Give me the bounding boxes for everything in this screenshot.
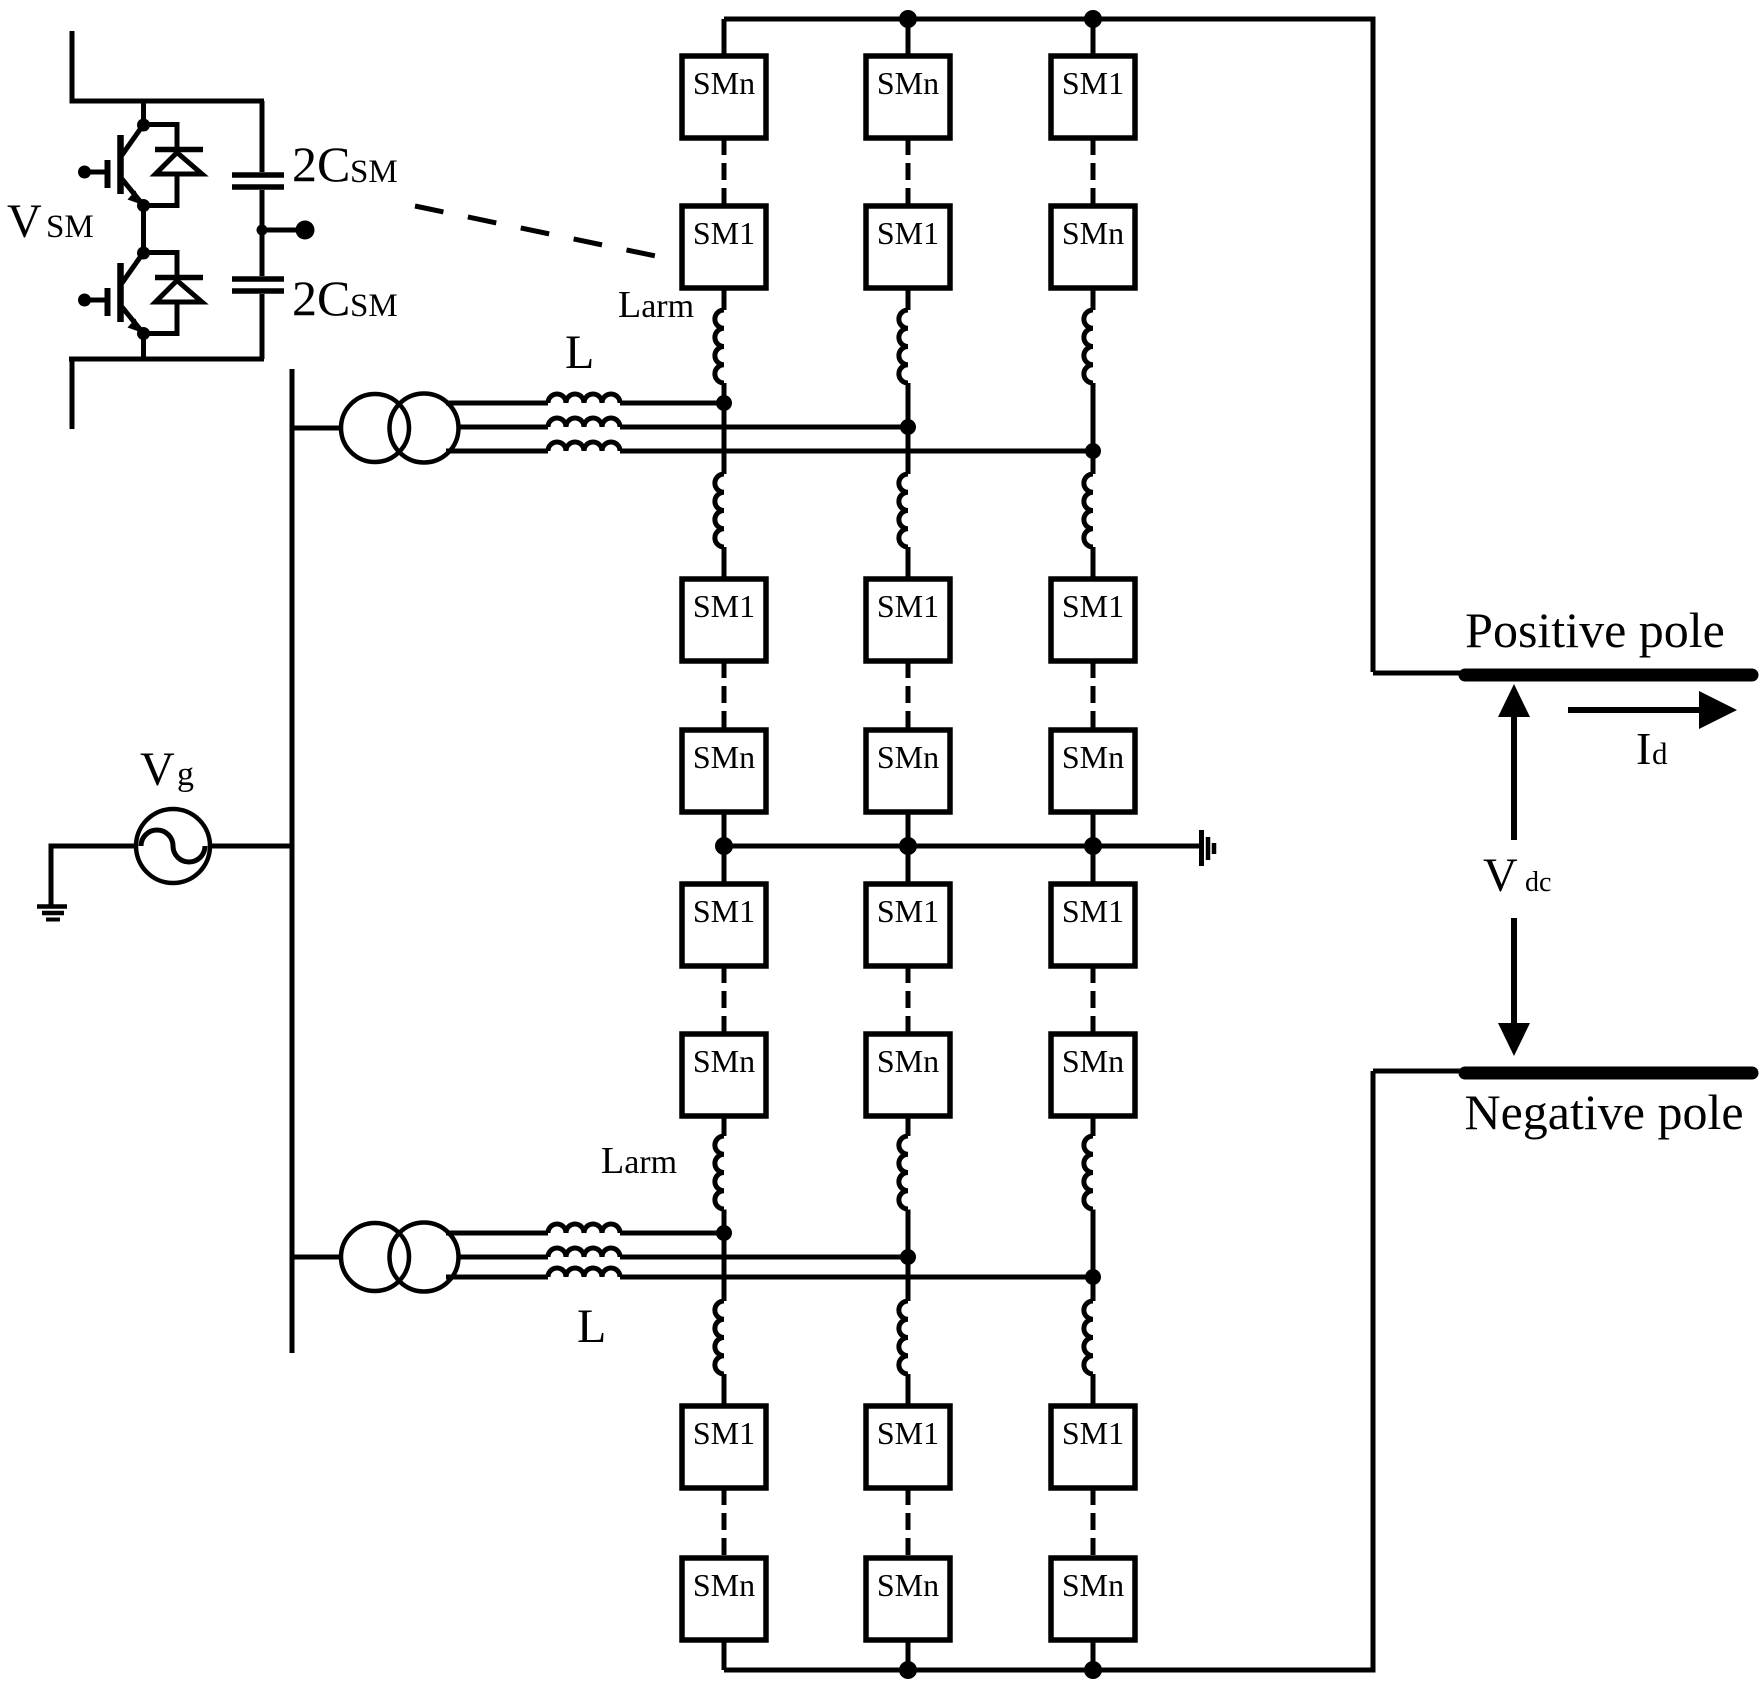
submodule box SMn (lower arm-, phase C) bbox=[1051, 1558, 1135, 1640]
wire neutral bus to lower arm+ phase B bbox=[906, 846, 911, 884]
wire Vg to ground bbox=[51, 846, 136, 906]
svg-text:SM1: SM1 bbox=[693, 588, 755, 624]
inductor Larm (upper arm+, phase C) bbox=[1084, 310, 1093, 383]
wire Larm to phase node A (upper) bbox=[722, 383, 727, 403]
wire Larm to phase node B (lower) bbox=[906, 1210, 911, 1258]
wire lower arm+ to Larm phase B bbox=[906, 1116, 911, 1136]
submodule box SM1 (upper arm+, phase B) bbox=[866, 206, 950, 288]
wire lower arm+ to Larm phase A bbox=[722, 1116, 727, 1136]
submodule box SMn (upper arm-, phase A) bbox=[682, 730, 766, 812]
inductor Larm (upper arm-, phase C) bbox=[1084, 474, 1093, 547]
wire top DC bus to positive pole bbox=[724, 19, 1373, 672]
arrow Vdc (pole-to-pole voltage) bbox=[1498, 684, 1530, 1056]
wire T1 phase C feeder bbox=[446, 449, 1093, 454]
label Vdc bbox=[1483, 849, 1551, 902]
svg-text:SM1: SM1 bbox=[877, 588, 939, 624]
wire arm+ dashed link phase B bbox=[906, 138, 911, 206]
wire lower arm+ dashed link phase C bbox=[1091, 966, 1096, 1034]
wire arm- to neutral bus phase A bbox=[722, 812, 727, 846]
inductor L (T2 phase A) bbox=[548, 1224, 620, 1233]
wire lower arm- dashed link phase C bbox=[1091, 1488, 1096, 1558]
wire lower arm+ dashed link phase B bbox=[906, 966, 911, 1034]
submodule box SM1 (lower arm+, phase A) bbox=[682, 884, 766, 966]
junction phase node A (upper converter) bbox=[716, 395, 732, 411]
svg-text:SMn: SMn bbox=[877, 739, 939, 775]
inductor Larm (lower arm+, phase B) bbox=[899, 1136, 908, 1209]
junction top bus phase B bbox=[899, 10, 917, 28]
junction neutral bus phase B bbox=[899, 837, 917, 855]
inductor Larm (upper arm-, phase B) bbox=[899, 474, 908, 547]
submodule box SM1 (lower arm+, phase C) bbox=[1051, 884, 1135, 966]
junction phase node B (upper converter) bbox=[900, 419, 916, 435]
svg-text:SMn: SMn bbox=[693, 739, 755, 775]
wire neutral bus to lower arm+ phase C bbox=[1091, 846, 1096, 884]
svg-text:SM1: SM1 bbox=[693, 1415, 755, 1451]
diode D1 (antiparallel, upper) bbox=[144, 125, 204, 206]
svg-text:Positive pole: Positive pole bbox=[1465, 602, 1725, 658]
wire T1 phase A feeder bbox=[446, 401, 724, 406]
wire SM detail: bottom rail / negative terminal lead bbox=[69, 359, 264, 429]
ground (neutral point) bbox=[1202, 830, 1215, 866]
submodule box SM1 (lower arm-, phase B) bbox=[866, 1406, 950, 1488]
svg-text:SM1: SM1 bbox=[877, 215, 939, 251]
capacitor C1 (2Csm upper) bbox=[232, 175, 284, 187]
positive pole bus bar bbox=[1465, 669, 1752, 682]
submodule box SM1 (upper arm-, phase C) bbox=[1051, 579, 1135, 661]
svg-text:SM: SM bbox=[350, 154, 398, 190]
inductor Larm (lower arm+, phase C) bbox=[1084, 1136, 1093, 1209]
svg-text:SMn: SMn bbox=[693, 65, 755, 101]
wire lower arm- to bottom bus phase C bbox=[1091, 1640, 1096, 1670]
svg-text:SMn: SMn bbox=[877, 1567, 939, 1603]
wire arm- to neutral bus phase B bbox=[906, 812, 911, 846]
submodule box SM1 (upper arm+, phase A) bbox=[682, 206, 766, 288]
wire SM detail: C2 to bottom rail bbox=[260, 294, 265, 359]
wire SM detail: top rail to C1 bbox=[260, 101, 265, 172]
capacitor C2 (2Csm lower) bbox=[232, 279, 284, 291]
wire positive pole lead bbox=[1373, 671, 1460, 676]
wire arm- dashed link phase B (upper) bbox=[906, 661, 911, 730]
wire phase node A to Larm (upper arm-) bbox=[722, 403, 727, 474]
svg-text:Negative pole: Negative pole bbox=[1464, 1084, 1743, 1140]
wire T2 phase C feeder bbox=[446, 1275, 1093, 1280]
submodule box SMn (lower arm-, phase A) bbox=[682, 1558, 766, 1640]
junction midpoint terminal bbox=[296, 221, 315, 240]
label 2Csm (upper) bbox=[292, 136, 398, 192]
inductor Larm (lower arm-, phase B) bbox=[899, 1301, 908, 1374]
svg-text:Larm: Larm bbox=[601, 1140, 677, 1182]
submodule box SMn (lower arm+, phase C) bbox=[1051, 1034, 1135, 1116]
submodule box SM1 (lower arm-, phase C) bbox=[1051, 1406, 1135, 1488]
svg-text:SMn: SMn bbox=[693, 1567, 755, 1603]
wire arm- to neutral bus phase C bbox=[1091, 812, 1096, 846]
wire Vg to AC bus bbox=[210, 844, 292, 849]
wire T2 phase A feeder bbox=[446, 1231, 724, 1236]
transformer T1 (upper converter) bbox=[341, 394, 459, 463]
label Vg bbox=[140, 743, 194, 796]
inductor L (T1 phase A) bbox=[548, 394, 620, 403]
wire arm+ to Larm phase A bbox=[722, 288, 727, 310]
svg-text:SM1: SM1 bbox=[877, 893, 939, 929]
submodule box SMn (upper arm-, phase C) bbox=[1051, 730, 1135, 812]
svg-text:SM1: SM1 bbox=[693, 215, 755, 251]
wire neutral bus to lower arm+ phase A bbox=[722, 846, 727, 884]
svg-text:SM: SM bbox=[46, 209, 94, 245]
wire AC bus to transformer T1 bbox=[292, 426, 341, 431]
submodule box SM1 (upper arm-, phase B) bbox=[866, 579, 950, 661]
inductor Larm (lower arm-, phase C) bbox=[1084, 1301, 1093, 1374]
wire lower arm- dashed link phase B bbox=[906, 1488, 911, 1558]
svg-text:d: d bbox=[1652, 736, 1668, 771]
wire Larm to arm- phase A (upper) bbox=[722, 547, 727, 579]
svg-text:SMn: SMn bbox=[693, 1043, 755, 1079]
inductor L (T2 phase B) bbox=[548, 1248, 620, 1257]
wire dashed leader to SM1 bbox=[415, 206, 670, 259]
svg-text:SMn: SMn bbox=[1062, 1567, 1124, 1603]
transformer T2 (lower converter) bbox=[341, 1223, 459, 1292]
arrow Id (DC current) bbox=[1568, 691, 1737, 729]
wire arm+ to Larm phase C bbox=[1091, 288, 1096, 310]
wire Larm to phase node A (lower) bbox=[722, 1210, 727, 1234]
svg-text:V: V bbox=[1483, 849, 1518, 902]
submodule box SMn (lower arm-, phase B) bbox=[866, 1558, 950, 1640]
svg-text:SM1: SM1 bbox=[1062, 1415, 1124, 1451]
svg-text:SM1: SM1 bbox=[1062, 893, 1124, 929]
wire SM detail: collector riser T1 bbox=[141, 101, 146, 125]
wire phase node C to Larm (lower arm-) bbox=[1091, 1277, 1096, 1301]
junction neutral bus phase A bbox=[715, 837, 733, 855]
diode D2 (antiparallel, lower) bbox=[144, 253, 204, 334]
inductor Larm (upper arm-, phase A) bbox=[715, 474, 724, 547]
submodule box SMn (upper arm-, phase B) bbox=[866, 730, 950, 812]
submodule box SMn (upper arm+, phase B) bbox=[866, 56, 950, 138]
inductor Larm (upper arm+, phase B) bbox=[899, 310, 908, 383]
inductor L (T2 phase C) bbox=[548, 1268, 620, 1277]
submodule box SMn (lower arm+, phase A) bbox=[682, 1034, 766, 1116]
wire arm+ to Larm phase B bbox=[906, 288, 911, 310]
wire SM detail: C1 to C2 wire bbox=[260, 190, 265, 276]
wire Larm to phase node B (upper) bbox=[906, 383, 911, 427]
wire lower arm+ to Larm phase C bbox=[1091, 1116, 1096, 1136]
svg-text:V: V bbox=[7, 195, 42, 248]
junction phase node C (upper converter) bbox=[1085, 443, 1101, 459]
wire AC bus bbox=[290, 369, 295, 1353]
junction T1 emitter node bbox=[137, 199, 150, 212]
svg-text:I: I bbox=[1636, 723, 1651, 774]
submodule box SMn (upper arm+, phase A) bbox=[682, 56, 766, 138]
wire top bus riser phase B bbox=[906, 19, 911, 56]
junction capacitor midpoint tap bbox=[257, 225, 268, 236]
junction T2 collector node bbox=[137, 247, 150, 260]
wire AC bus to transformer T2 bbox=[292, 1255, 341, 1260]
wire Larm to lower arm- phase C bbox=[1091, 1374, 1096, 1406]
label 2Csm (lower) bbox=[292, 270, 398, 326]
wire SM detail: top rail / positive terminal lead bbox=[72, 31, 264, 101]
junction T1 collector node bbox=[137, 119, 150, 132]
wire lower arm- to bottom bus phase A bbox=[722, 1640, 727, 1670]
wire Larm to arm- phase B (upper) bbox=[906, 547, 911, 579]
submodule box SM1 (lower arm+, phase B) bbox=[866, 884, 950, 966]
junction T2 emitter node bbox=[137, 327, 150, 340]
wire Larm to lower arm- phase A bbox=[722, 1374, 727, 1406]
svg-text:SM1: SM1 bbox=[693, 893, 755, 929]
svg-text:L: L bbox=[577, 1300, 606, 1353]
wire top bus riser phase A bbox=[722, 19, 727, 56]
junction bottom bus phase C bbox=[1084, 1661, 1102, 1679]
svg-text:SMn: SMn bbox=[877, 65, 939, 101]
wire lower arm- dashed link phase A bbox=[722, 1488, 727, 1558]
svg-text:SM1: SM1 bbox=[1062, 65, 1124, 101]
label Vsm bbox=[7, 195, 94, 248]
wire negative pole lead bbox=[1373, 1069, 1460, 1074]
svg-text:2C: 2C bbox=[292, 136, 350, 192]
negative pole bus bar bbox=[1465, 1067, 1752, 1080]
wire phase node A to Larm (lower arm-) bbox=[722, 1233, 727, 1301]
svg-text:V: V bbox=[140, 743, 175, 796]
wire bottom DC bus from negative pole bbox=[724, 1071, 1373, 1670]
submodule box SM1 (upper arm+, phase C) bbox=[1051, 56, 1135, 138]
submodule box SMn (lower arm+, phase B) bbox=[866, 1034, 950, 1116]
svg-text:SMn: SMn bbox=[1062, 1043, 1124, 1079]
transistor T2 (lower IGBT) bbox=[78, 256, 144, 334]
label Id bbox=[1636, 723, 1668, 774]
wire top bus riser phase C bbox=[1091, 19, 1096, 56]
wire arm+ dashed link phase C bbox=[1091, 138, 1096, 206]
wire middle neutral bus bbox=[724, 844, 1199, 849]
svg-text:SM: SM bbox=[350, 288, 398, 324]
svg-text:2C: 2C bbox=[292, 270, 350, 326]
svg-text:SM1: SM1 bbox=[877, 1415, 939, 1451]
wire phase node B to Larm (upper arm-) bbox=[906, 427, 911, 474]
junction bottom bus phase B bbox=[899, 1661, 917, 1679]
junction top bus phase C bbox=[1084, 10, 1102, 28]
junction phase node C (lower converter) bbox=[1085, 1269, 1101, 1285]
wire Larm to phase node C (upper) bbox=[1091, 383, 1096, 451]
wire lower arm- to bottom bus phase B bbox=[906, 1640, 911, 1670]
inductor Larm (lower arm-, phase A) bbox=[715, 1301, 724, 1374]
svg-text:SMn: SMn bbox=[1062, 739, 1124, 775]
wire SM detail: midpoint wire bbox=[141, 206, 146, 254]
wire SM detail: emitter to bottom rail bbox=[141, 334, 146, 360]
svg-text:SM1: SM1 bbox=[1062, 588, 1124, 624]
transistor T1 (upper IGBT) bbox=[78, 128, 144, 206]
inductor Larm (upper arm+, phase A) bbox=[715, 310, 724, 383]
inductor L (T1 phase C) bbox=[548, 442, 620, 451]
wire Larm to phase node C (lower) bbox=[1091, 1210, 1096, 1278]
inductor L (T1 phase B) bbox=[548, 418, 620, 427]
wire arm- dashed link phase C (upper) bbox=[1091, 661, 1096, 730]
wire arm- dashed link phase A (upper) bbox=[722, 661, 727, 730]
wire phase node B to Larm (lower arm-) bbox=[906, 1257, 911, 1301]
svg-text:SMn: SMn bbox=[877, 1043, 939, 1079]
source Vg (AC grid) bbox=[136, 809, 210, 883]
submodule box SMn (upper arm+, phase C) bbox=[1051, 206, 1135, 288]
svg-text:dc: dc bbox=[1525, 867, 1551, 898]
wire Larm to arm- phase C (upper) bbox=[1091, 547, 1096, 579]
inductor Larm (lower arm+, phase A) bbox=[715, 1136, 724, 1209]
wire SM detail: midpoint tap lead bbox=[262, 228, 301, 233]
submodule box SM1 (upper arm-, phase A) bbox=[682, 579, 766, 661]
submodule box SM1 (lower arm-, phase A) bbox=[682, 1406, 766, 1488]
wire phase node C to Larm (upper arm-) bbox=[1091, 451, 1096, 474]
junction phase node A (lower converter) bbox=[716, 1225, 732, 1241]
svg-text:SMn: SMn bbox=[1062, 215, 1124, 251]
wire arm+ dashed link phase A bbox=[722, 138, 727, 206]
svg-text:L: L bbox=[565, 326, 594, 379]
wire Larm to lower arm- phase B bbox=[906, 1374, 911, 1406]
wire T2 phase B feeder bbox=[458, 1255, 908, 1260]
wire T1 phase B feeder bbox=[458, 425, 908, 430]
junction phase node B (lower converter) bbox=[900, 1249, 916, 1265]
ground (source) bbox=[37, 907, 67, 920]
svg-text:g: g bbox=[177, 756, 194, 793]
junction neutral bus phase C bbox=[1084, 837, 1102, 855]
wire lower arm+ dashed link phase A bbox=[722, 966, 727, 1034]
